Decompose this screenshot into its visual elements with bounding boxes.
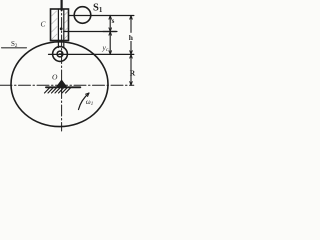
vertical centerline xyxy=(61,0,63,131)
svg-text:yc: yc xyxy=(102,43,109,53)
roller pin inner ring xyxy=(57,51,63,57)
roller center reference line xyxy=(49,53,134,55)
svg-text:ω1: ω1 xyxy=(86,98,93,107)
svg-text:s: s xyxy=(112,17,115,25)
top reference line S1 xyxy=(69,15,134,17)
mass S1 circle xyxy=(74,7,91,24)
svg-text:R: R xyxy=(130,68,136,77)
reference line through C xyxy=(64,31,116,33)
follower rod sides xyxy=(57,9,59,48)
dimension line h and R xyxy=(130,16,132,86)
cam disc (eccentric wheel) xyxy=(11,42,108,127)
svg-text:S1: S1 xyxy=(93,3,103,15)
tick at C line xyxy=(103,31,117,33)
arrowheads s dim xyxy=(109,16,112,20)
guide block xyxy=(51,9,69,41)
point C dot on rod xyxy=(60,27,63,30)
guide hatching left xyxy=(52,11,58,40)
horizontal centerline xyxy=(0,84,134,86)
dimension line s and yc xyxy=(109,16,111,55)
guide hatching right xyxy=(65,12,69,39)
svg-text:C: C xyxy=(41,19,47,28)
follower rod top segment xyxy=(60,0,62,10)
omega1 rotation arrow xyxy=(79,93,90,110)
pivot triangle at O xyxy=(56,80,67,87)
roller pin outer circle xyxy=(53,47,68,62)
arrowheads yc dim xyxy=(109,32,112,36)
label h xyxy=(128,33,134,41)
ground line xyxy=(46,86,80,88)
ground hatching xyxy=(45,88,71,93)
svg-text:O: O xyxy=(52,73,58,82)
